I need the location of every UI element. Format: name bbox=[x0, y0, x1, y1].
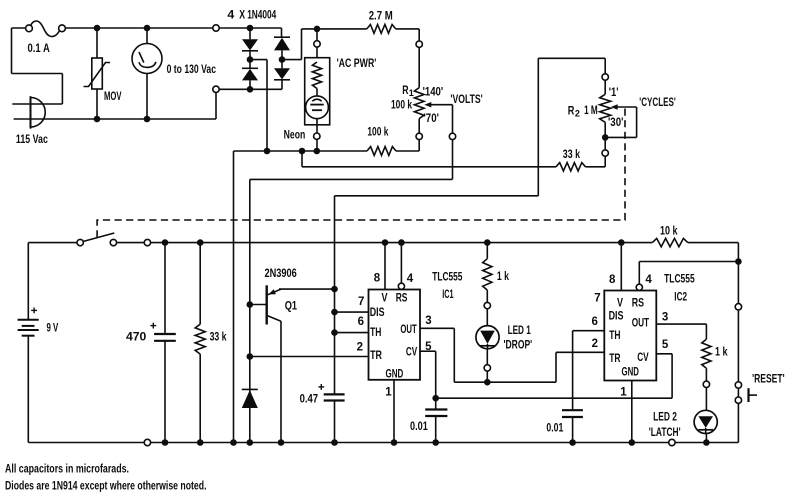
junction bbox=[247, 56, 254, 63]
wire IC1 pin 4 RS bbox=[400, 243, 402, 284]
junction bbox=[162, 239, 169, 246]
svg-text:3: 3 bbox=[425, 315, 431, 327]
svg-text:TH: TH bbox=[609, 328, 620, 342]
terminal bbox=[77, 239, 83, 245]
junction bbox=[331, 329, 338, 336]
junction bbox=[391, 439, 398, 446]
junction bbox=[569, 439, 576, 446]
terminal bbox=[602, 150, 608, 156]
terminal bbox=[484, 365, 490, 371]
junction bbox=[264, 148, 271, 155]
wire IC1 pin 7 DIS bbox=[335, 311, 369, 313]
terminal bbox=[669, 439, 675, 445]
transistor Q1 2N3906 bbox=[250, 285, 335, 442]
wire ground rail bbox=[28, 442, 738, 444]
wire top AC rail bbox=[12, 28, 282, 104]
label 4 X 1N4004 bbox=[227, 8, 276, 22]
junction bbox=[144, 25, 151, 32]
wire bridge column 2 bbox=[281, 28, 284, 89]
capacitor 0.01 uF (IC2) bbox=[562, 410, 583, 442]
wire 9V positive rail bbox=[28, 242, 738, 244]
svg-text:TR: TR bbox=[609, 351, 620, 365]
svg-text:2: 2 bbox=[592, 338, 598, 350]
wire IC2 pin 6 TH bbox=[573, 331, 605, 411]
svg-text:IC1: IC1 bbox=[442, 287, 453, 301]
IC2 reset bubble bbox=[636, 284, 642, 290]
junction bbox=[247, 301, 254, 308]
terminal bbox=[144, 239, 150, 245]
svg-text:DIS: DIS bbox=[370, 305, 385, 319]
svg-text:V: V bbox=[617, 295, 624, 309]
junction bbox=[314, 26, 321, 33]
svg-text:1N4004: 1N4004 bbox=[247, 8, 276, 22]
wire bus drop left bbox=[233, 151, 235, 443]
svg-text:CV: CV bbox=[637, 350, 649, 364]
junction bbox=[331, 286, 338, 293]
switch S1 bbox=[83, 233, 114, 242]
svg-text:0.47: 0.47 bbox=[300, 391, 319, 405]
svg-text:0.01: 0.01 bbox=[546, 421, 563, 435]
junction bbox=[197, 439, 204, 446]
junction bbox=[432, 395, 439, 402]
label TLC555 IC2 bbox=[664, 272, 695, 304]
fuse F1 0.1 A bbox=[26, 21, 66, 37]
terminal bbox=[110, 239, 116, 245]
svg-text:115 Vac: 115 Vac bbox=[16, 132, 48, 146]
capacitor 470 uF bbox=[150, 243, 175, 443]
svg-text:'LATCH': 'LATCH' bbox=[649, 425, 681, 439]
wire IC1 pin 2 TR bbox=[250, 356, 369, 358]
svg-text:LED 1: LED 1 bbox=[508, 323, 531, 337]
svg-text:1: 1 bbox=[385, 386, 392, 398]
svg-text:10 k: 10 k bbox=[660, 224, 678, 238]
terminal bbox=[314, 41, 320, 47]
wire reset branch bbox=[737, 243, 739, 443]
svg-text:Q1: Q1 bbox=[285, 298, 297, 312]
diode D3 bbox=[274, 37, 290, 50]
svg-text:33 k: 33 k bbox=[563, 147, 580, 161]
junction bbox=[703, 439, 710, 446]
junction bbox=[602, 134, 609, 141]
resistor 10 k bbox=[652, 238, 688, 246]
LED LED1 bbox=[476, 326, 499, 349]
junction bbox=[484, 379, 491, 386]
svg-text:100 k: 100 k bbox=[391, 98, 412, 112]
svg-text:Neon: Neon bbox=[284, 128, 306, 142]
AC plug 115 Vac bbox=[12, 96, 62, 128]
junction bbox=[398, 239, 405, 246]
diode D1 bbox=[242, 39, 258, 51]
wire R2 top feed bbox=[335, 58, 606, 394]
junction bbox=[618, 239, 625, 246]
svg-text:MOV: MOV bbox=[104, 89, 122, 103]
wire IC1 pin 8 bbox=[384, 243, 386, 290]
svg-text:3: 3 bbox=[662, 311, 668, 323]
svg-text:470: 470 bbox=[126, 330, 146, 344]
svg-text:TLC555: TLC555 bbox=[432, 270, 462, 284]
svg-text:33 k: 33 k bbox=[210, 329, 227, 343]
junction bbox=[94, 116, 101, 123]
svg-text:7: 7 bbox=[594, 293, 600, 305]
battery B1 9 V bbox=[18, 243, 39, 443]
terminal bbox=[484, 302, 490, 308]
terminal bbox=[314, 133, 320, 139]
capacitor 0.47 uF bbox=[318, 384, 344, 443]
terminal bbox=[213, 86, 219, 92]
wire IC2 pin 8 bbox=[620, 243, 622, 291]
svg-text:2.7 M: 2.7 M bbox=[369, 8, 393, 22]
svg-text:IC2: IC2 bbox=[674, 289, 687, 303]
svg-text:1 k: 1 k bbox=[497, 269, 509, 283]
junction bbox=[432, 439, 439, 446]
wire bridge output tap bbox=[250, 60, 267, 151]
diode D5 bbox=[242, 389, 258, 408]
wire IC2 OUT bbox=[656, 324, 706, 339]
resistor 1 k (LED1) bbox=[483, 243, 492, 383]
svg-text:'140': '140' bbox=[423, 84, 444, 98]
dashed linkage CYCLES pot to switch bbox=[97, 109, 625, 238]
svg-text:Diodes are 1N914 except where: Diodes are 1N914 except where otherwise … bbox=[5, 479, 207, 493]
resistor 2.7 M bbox=[367, 25, 396, 34]
junction bbox=[247, 439, 254, 446]
junction bbox=[331, 439, 338, 446]
svg-text:8: 8 bbox=[374, 272, 381, 284]
svg-text:'CYCLES': 'CYCLES' bbox=[639, 95, 676, 109]
svg-text:'DROP': 'DROP' bbox=[504, 338, 533, 352]
svg-text:OUT: OUT bbox=[400, 322, 417, 336]
svg-text:'30': '30' bbox=[608, 115, 623, 129]
wire neon node to 33 k bbox=[302, 122, 605, 167]
svg-text:1 M: 1 M bbox=[584, 103, 598, 117]
svg-text:TR: TR bbox=[370, 348, 382, 362]
svg-text:OUT: OUT bbox=[632, 316, 650, 330]
wire IC2 pin 4 RS bbox=[639, 262, 738, 285]
junction bbox=[230, 439, 237, 446]
svg-text:RS: RS bbox=[396, 290, 408, 304]
wire rectified bus bbox=[234, 119, 420, 151]
svg-text:2: 2 bbox=[357, 341, 363, 353]
capacitor 0.01 uF (IC1) bbox=[425, 398, 447, 442]
svg-text:7: 7 bbox=[358, 296, 364, 308]
svg-text:8: 8 bbox=[609, 274, 616, 286]
svg-text:'70': '70' bbox=[424, 111, 439, 125]
wire bridge to DC rail bbox=[282, 29, 367, 60]
terminal bbox=[703, 381, 709, 387]
svg-text:'1': '1' bbox=[609, 85, 619, 99]
wire DC rail to R1 top bbox=[396, 29, 420, 88]
voltmeter 0 to 130 Vac bbox=[132, 28, 162, 119]
potentiometer R2 1 M bbox=[600, 94, 637, 137]
svg-text:0.01: 0.01 bbox=[410, 419, 428, 433]
svg-text:5: 5 bbox=[662, 339, 669, 351]
resistor 1 k (LED2) bbox=[702, 339, 711, 442]
wire bottom AC rail bbox=[14, 89, 282, 119]
diode D2 bbox=[242, 68, 258, 80]
junction bbox=[484, 239, 491, 246]
terminal bbox=[449, 133, 455, 139]
junction bbox=[279, 56, 286, 63]
svg-text:R: R bbox=[568, 103, 575, 117]
terminal bbox=[213, 25, 219, 31]
terminal bbox=[144, 439, 150, 445]
svg-text:2N3906: 2N3906 bbox=[265, 266, 297, 280]
junction bbox=[197, 239, 204, 246]
svg-text:1: 1 bbox=[620, 386, 627, 398]
svg-text:GND: GND bbox=[386, 366, 404, 380]
junction bbox=[247, 86, 254, 93]
potentiometer R1 100 k bbox=[414, 88, 452, 119]
svg-text:DIS: DIS bbox=[609, 309, 624, 323]
resistor 33 k (R2 bottom) bbox=[556, 163, 586, 171]
resistor 100 k (lower) bbox=[367, 147, 396, 156]
svg-text:6: 6 bbox=[591, 316, 597, 328]
label TLC555 IC1 bbox=[432, 270, 462, 302]
label IC2 pin numbers bbox=[591, 274, 668, 399]
LED LED2 bbox=[694, 410, 717, 433]
svg-text:4: 4 bbox=[645, 274, 652, 286]
terminal bbox=[602, 74, 608, 80]
svg-text:'AC PWR': 'AC PWR' bbox=[337, 56, 377, 70]
svg-text:R: R bbox=[402, 83, 408, 97]
wire IC1 OUT to IC2 TR bbox=[420, 328, 604, 382]
svg-text:4: 4 bbox=[227, 8, 234, 22]
IC IC2 TLC555 bbox=[604, 291, 656, 381]
svg-text:CV: CV bbox=[406, 344, 418, 358]
svg-text:6: 6 bbox=[358, 316, 364, 328]
svg-text:All capacitors in microfarads.: All capacitors in microfarads. bbox=[5, 461, 129, 475]
junction bbox=[247, 25, 254, 32]
wire IC1 CV / control bus bbox=[420, 351, 672, 398]
junction bbox=[331, 309, 338, 316]
pushbutton RESET bbox=[735, 382, 757, 404]
wire IC1 pin 1 GND bbox=[393, 380, 395, 443]
neon lamp AC PWR bbox=[305, 29, 330, 151]
junction bbox=[382, 239, 389, 246]
junction bbox=[299, 148, 306, 155]
diode D4 bbox=[274, 68, 290, 80]
junction bbox=[94, 25, 101, 32]
junction bbox=[735, 258, 742, 265]
junction bbox=[247, 353, 254, 360]
IC1 reset bubble bbox=[398, 283, 404, 289]
junction bbox=[629, 439, 636, 446]
resistor 33 k (bias) bbox=[195, 243, 205, 443]
junction bbox=[314, 148, 321, 155]
svg-text:LED 2: LED 2 bbox=[653, 409, 677, 423]
terminal bbox=[416, 133, 422, 139]
wire IC2 pin 1 GND bbox=[631, 381, 633, 443]
svg-text:RS: RS bbox=[632, 295, 644, 309]
wire IC2 pin 5 CV bbox=[656, 354, 672, 398]
varistor MOV bbox=[84, 28, 111, 119]
svg-text:100 k: 100 k bbox=[367, 124, 388, 138]
IC IC1 TLC555 bbox=[369, 290, 421, 381]
svg-text:'VOLTS': 'VOLTS' bbox=[450, 92, 482, 106]
wire bridge column 1 bbox=[249, 28, 251, 89]
svg-text:0.1 A: 0.1 A bbox=[28, 41, 50, 55]
svg-text:2: 2 bbox=[575, 109, 580, 119]
svg-text:TH: TH bbox=[370, 325, 381, 339]
svg-text:9 V: 9 V bbox=[47, 320, 59, 334]
terminal bbox=[735, 304, 741, 310]
junction bbox=[278, 439, 285, 446]
junction bbox=[144, 116, 151, 123]
svg-text:TLC555: TLC555 bbox=[664, 272, 695, 286]
svg-text:'RESET': 'RESET' bbox=[752, 371, 785, 385]
svg-text:4: 4 bbox=[407, 273, 414, 285]
svg-text:V: V bbox=[382, 291, 389, 305]
wire R1 wiper bbox=[250, 105, 453, 443]
svg-text:GND: GND bbox=[622, 364, 640, 378]
junction bbox=[162, 439, 169, 446]
label IC1 pin numbers bbox=[357, 272, 433, 398]
wire IC1 pin 6 TH bbox=[335, 332, 369, 334]
svg-text:X: X bbox=[239, 8, 245, 22]
terminal bbox=[416, 41, 422, 47]
svg-text:1 k: 1 k bbox=[715, 345, 728, 359]
svg-text:0 to 130 Vac: 0 to 130 Vac bbox=[167, 62, 216, 76]
